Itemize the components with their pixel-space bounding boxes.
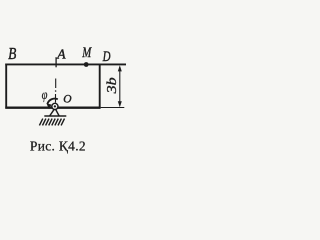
tick at node A xyxy=(55,57,57,67)
svg-text:O: O xyxy=(63,94,72,106)
ground line xyxy=(44,115,66,117)
plate bottom edge xyxy=(5,107,100,109)
dimension line 3b xyxy=(119,67,121,106)
dimension arrowhead up xyxy=(118,65,122,71)
dash-dot centerline AO xyxy=(55,79,57,103)
svg-text:Рис. Қ4.2: Рис. Қ4.2 xyxy=(30,138,86,153)
svg-text:M: M xyxy=(81,45,92,61)
arc arrow phi xyxy=(47,99,57,104)
dimension arrowhead down xyxy=(118,101,122,107)
pivot center dot xyxy=(54,105,56,107)
plate left edge xyxy=(5,64,7,109)
dash-dot dot xyxy=(55,90,57,92)
point M dot xyxy=(84,62,89,67)
arc arrowhead xyxy=(46,103,51,109)
svg-text:3b: 3b xyxy=(105,77,120,95)
svg-text:φ: φ xyxy=(42,87,48,103)
svg-text:D: D xyxy=(102,49,111,65)
pivot circle O xyxy=(52,103,58,109)
svg-text:A: A xyxy=(56,46,66,61)
support triangle legs xyxy=(50,109,59,116)
ground hatching xyxy=(39,119,64,126)
plate right edge xyxy=(99,64,101,108)
bottom dimension extension line xyxy=(101,107,125,109)
svg-text:B: B xyxy=(8,46,16,63)
plate top edge with dimension extension xyxy=(5,63,126,65)
